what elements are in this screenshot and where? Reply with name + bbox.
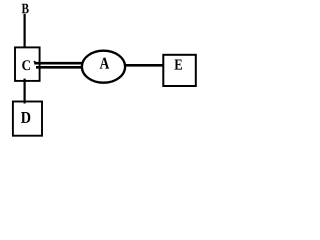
box C — [15, 47, 40, 81]
label A — [100, 58, 110, 69]
box E — [163, 55, 196, 86]
node B label — [22, 4, 29, 14]
ellipse A — [82, 51, 125, 83]
label D — [21, 112, 30, 123]
wire B to C — [24, 14, 26, 48]
arrowhead tick at C — [34, 61, 36, 63]
label C — [22, 60, 30, 70]
wire A to E — [126, 64, 163, 67]
wire C to A (double line, bottom) — [36, 66, 83, 69]
box D — [13, 102, 42, 136]
label E — [175, 59, 182, 69]
wire C to A (double line, top) — [34, 62, 82, 65]
wire C to D — [24, 79, 26, 104]
